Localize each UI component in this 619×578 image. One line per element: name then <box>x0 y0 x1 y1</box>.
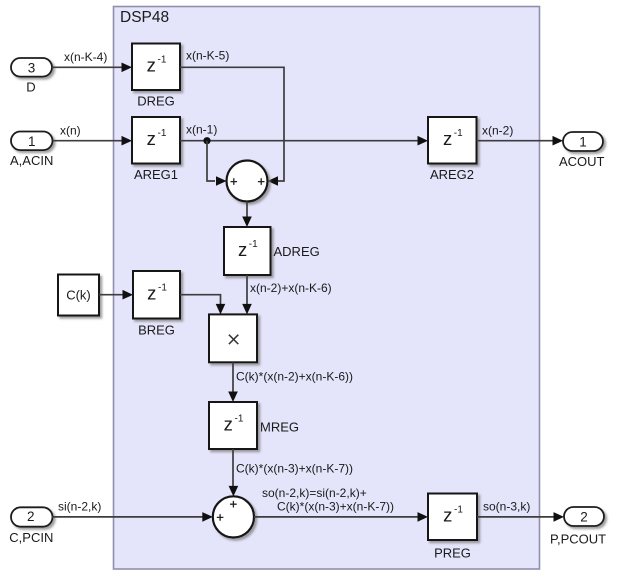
svg-text:z: z <box>238 239 247 260</box>
svg-text:-1: -1 <box>454 128 463 139</box>
port 3 D (input oval) <box>11 58 52 77</box>
wire D to DREG <box>52 66 122 68</box>
svg-text:C(k)*(x(n-2)+x(n-K-6)): C(k)*(x(n-2)+x(n-K-6)) <box>236 370 353 384</box>
wire C(k) to BREG <box>99 294 123 296</box>
svg-text:ADREG: ADREG <box>274 244 320 259</box>
svg-text:2: 2 <box>580 510 588 525</box>
svg-text:AREG1: AREG1 <box>134 167 178 182</box>
port 2 C,PCIN (input oval) <box>11 507 53 526</box>
wire MREG to adder A2 <box>232 449 234 487</box>
adder A1 <box>227 161 268 202</box>
register PREG <box>428 494 477 541</box>
svg-text:z: z <box>147 55 156 76</box>
svg-text:DREG: DREG <box>137 94 175 109</box>
svg-text:x(n-2)+x(n-K-6): x(n-2)+x(n-K-6) <box>250 281 332 295</box>
svg-text:x(n-K-5): x(n-K-5) <box>186 49 229 63</box>
svg-text:x(n-K-4): x(n-K-4) <box>64 50 107 64</box>
wire multiplier to MREG <box>232 362 234 393</box>
wire DREG out to adder A1 right input <box>180 67 284 181</box>
register AREG1 <box>132 117 180 164</box>
wire BREG to multiplier <box>180 295 221 306</box>
svg-text:3: 3 <box>28 60 36 75</box>
svg-text:A,ACIN: A,ACIN <box>10 153 53 168</box>
register AREG2 <box>428 117 477 164</box>
wire A,ACIN to AREG1 <box>53 140 123 142</box>
wire ADREG to multiplier <box>246 275 248 306</box>
svg-text:C(k)*(x(n-3)+x(n-K-7)): C(k)*(x(n-3)+x(n-K-7)) <box>277 500 394 514</box>
wire AREG1 out to AREG2 <box>180 140 418 142</box>
multiplier X1 <box>209 314 257 362</box>
wire adder A1 to ADREG <box>246 202 248 219</box>
port 1 A,ACIN (input oval) <box>11 132 53 151</box>
svg-text:D: D <box>26 80 35 95</box>
register BREG <box>133 271 180 319</box>
svg-text:z: z <box>443 505 452 526</box>
svg-text:z: z <box>224 413 233 434</box>
svg-text:C(k)*(x(n-3)+x(n-K-7)): C(k)*(x(n-3)+x(n-K-7)) <box>236 462 353 476</box>
svg-text:z: z <box>443 128 452 149</box>
svg-text:x(n-2): x(n-2) <box>482 124 513 138</box>
svg-text:C,PCIN: C,PCIN <box>9 530 53 545</box>
svg-text:si(n-2,k): si(n-2,k) <box>58 500 101 514</box>
svg-text:1: 1 <box>579 135 587 150</box>
wire PREG to P,PCOUT <box>477 516 554 518</box>
register ADREG <box>224 227 271 275</box>
adder A2 <box>213 496 254 537</box>
svg-text:2: 2 <box>27 509 35 524</box>
svg-text:so(n-2,k)=si(n-2,k)+: so(n-2,k)=si(n-2,k)+ <box>262 486 367 500</box>
constant C(k) <box>58 275 99 316</box>
svg-text:-1: -1 <box>158 283 167 294</box>
wire AREG2 to ACOUT <box>477 140 554 142</box>
svg-text:ACOUT: ACOUT <box>559 154 605 169</box>
junction dot <box>203 137 210 144</box>
svg-text:C(k): C(k) <box>66 288 91 303</box>
svg-text:DSP48: DSP48 <box>120 9 169 26</box>
svg-text:1: 1 <box>28 134 36 149</box>
svg-text:BREG: BREG <box>138 323 175 338</box>
svg-text:AREG2: AREG2 <box>430 167 474 182</box>
svg-text:z: z <box>147 283 156 304</box>
svg-text:-1: -1 <box>454 505 463 516</box>
svg-text:-1: -1 <box>249 239 258 250</box>
register DREG <box>132 44 180 91</box>
svg-text:-1: -1 <box>158 55 167 66</box>
port 1 ACOUT (output oval) <box>563 132 603 151</box>
register MREG <box>209 402 257 449</box>
svg-text:x(n-1): x(n-1) <box>186 123 217 137</box>
svg-text:MREG: MREG <box>260 420 299 435</box>
wire branch x(n-1) to adder A1 left input <box>207 141 215 181</box>
svg-text:x(n): x(n) <box>60 124 81 138</box>
svg-text:PREG: PREG <box>434 546 471 561</box>
port 2 P,PCOUT (output oval) <box>564 507 604 526</box>
svg-text:so(n-3,k): so(n-3,k) <box>483 500 530 514</box>
svg-text:P,PCOUT: P,PCOUT <box>550 532 606 547</box>
svg-text:z: z <box>147 128 156 149</box>
wire adder A2 to PREG <box>254 516 418 518</box>
svg-text:-1: -1 <box>158 128 167 139</box>
svg-text:-1: -1 <box>235 413 244 424</box>
DSP48 subsystem area <box>114 7 540 570</box>
wire C,PCIN to adder A2 <box>52 516 204 518</box>
